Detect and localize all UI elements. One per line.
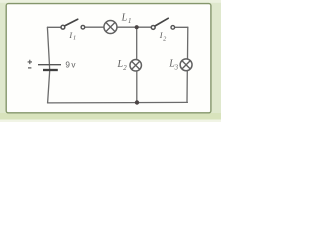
- wire lamp L1 to switch I2 (through node A): [118, 26, 151, 28]
- wire top-right corner down to lamp L3: [187, 27, 189, 58]
- battery B1 negative plate: [43, 69, 58, 71]
- svg-text:1: 1: [73, 35, 76, 42]
- svg-text:9: 9: [65, 61, 70, 70]
- lamp L1: [104, 21, 117, 34]
- wire left vertical (corner through battery to bottom-left corner): [47, 27, 49, 103]
- wire top-left to switch I1: [48, 26, 61, 28]
- battery B1 positive plate: [38, 64, 61, 66]
- switch I1 right contact: [81, 25, 85, 29]
- wire switch I2 to top-right corner: [175, 26, 188, 28]
- switch I2 blade: [155, 18, 168, 26]
- node B junction dot: [135, 100, 139, 104]
- wire bottom horizontal: [48, 101, 188, 104]
- page background: [0, 0, 221, 122]
- lamp L3: [180, 59, 192, 71]
- switch I2 right contact: [171, 26, 175, 30]
- svg-text:2: 2: [123, 65, 127, 72]
- battery polarity +: [28, 60, 32, 64]
- switch I1 blade: [65, 19, 78, 26]
- switch I1 left contact: [61, 25, 65, 29]
- wire lamp L3 to bottom-right corner: [186, 71, 188, 103]
- wire node A down to lamp L2: [136, 27, 138, 59]
- svg-text:1: 1: [128, 18, 131, 25]
- switch I2 left contact: [151, 25, 155, 29]
- svg-text:L: L: [121, 13, 128, 24]
- wire lamp L2 to bottom node B: [136, 71, 138, 103]
- node A junction dot: [135, 25, 139, 29]
- frame border: [6, 4, 211, 113]
- lamp L2: [130, 60, 142, 72]
- battery polarity -: [28, 67, 31, 69]
- wire switch I1 to lamp L1: [85, 26, 103, 28]
- svg-text:3: 3: [174, 65, 179, 72]
